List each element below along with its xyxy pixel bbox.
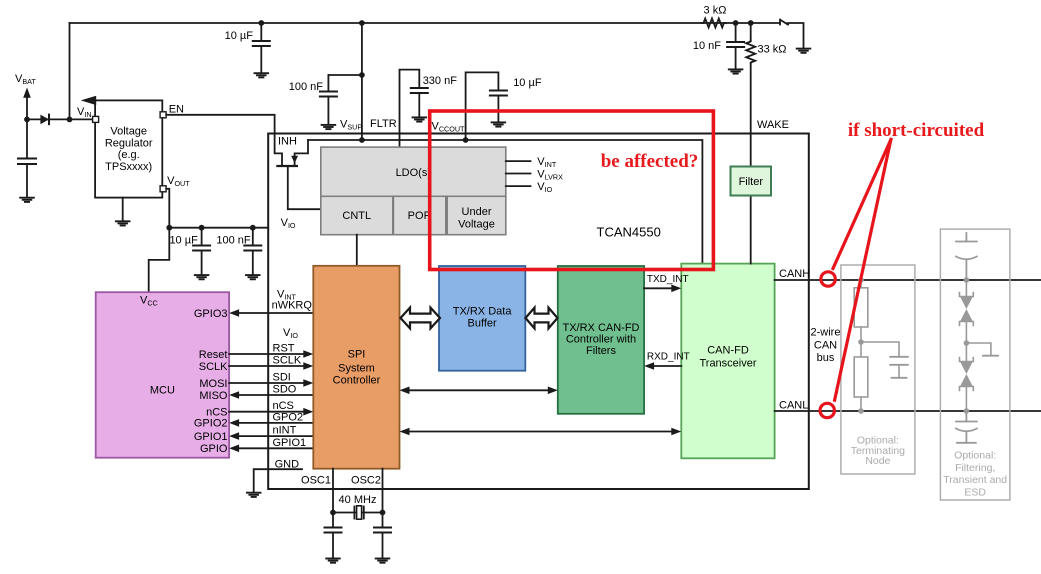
capacitor C11 ESD top [956, 233, 977, 280]
svg-text:TX/RX CAN-FD: TX/RX CAN-FD [563, 322, 640, 334]
svg-text:SDI: SDI [273, 372, 291, 384]
capacitor C12 ESD bottom [956, 411, 977, 443]
node rail VCCOUT junction [463, 137, 469, 143]
svg-text:LDO(s): LDO(s) [396, 167, 431, 179]
svg-text:Controller with: Controller with [566, 334, 636, 346]
svg-text:CAN: CAN [814, 340, 837, 352]
wire GND pin [254, 469, 302, 492]
svg-text:Filter: Filter [739, 176, 764, 188]
ground [729, 69, 743, 73]
wire SPI-Transceiver double arrow [408, 431, 674, 433]
wire SPI-Controller double arrow [408, 389, 550, 391]
capacitor VBAT bulk cap [26, 119, 28, 158]
resistor R4 terminating lower [854, 357, 868, 397]
svg-text:CAN-FD: CAN-FD [707, 345, 749, 357]
capacitor C2 100nF VSUP [320, 75, 362, 124]
svg-text:MOSI: MOSI [199, 378, 227, 390]
wire TXD_INT [644, 287, 673, 289]
svg-text:System: System [338, 363, 375, 375]
svg-text:Transient and: Transient and [943, 474, 1007, 486]
crystal X1 40MHz [333, 512, 383, 514]
pin VOUT [160, 186, 166, 192]
wire nWKRQ to GPIO3 [229, 313, 313, 448]
resistor R3 terminating upper [854, 288, 868, 327]
pin labels TCAN side [272, 289, 313, 471]
node rail VSUP junction [359, 137, 365, 143]
TCAN4550 outer box [268, 134, 809, 490]
wire vertical from top rail to VIN node [69, 23, 71, 119]
voltage regulator U1 [81, 96, 162, 198]
svg-text:Controller: Controller [333, 375, 381, 387]
svg-text:10 µF: 10 µF [169, 235, 198, 247]
pin EN [160, 112, 166, 118]
svg-text:OSC1: OSC1 [301, 475, 331, 487]
svg-text:2-wire: 2-wire [811, 327, 841, 339]
wire top supply rail [70, 22, 781, 24]
svg-text:SPI: SPI [348, 349, 366, 361]
svg-text:10 µF: 10 µF [513, 77, 542, 89]
node 10nF junction [733, 20, 739, 26]
wire ESD mid stub [966, 343, 998, 356]
TVS D2 upper [960, 280, 974, 343]
svg-text:40 MHz: 40 MHz [339, 494, 377, 506]
wire VCCOUT vertical with hook [466, 72, 499, 140]
pin VIO LDO output [506, 185, 531, 187]
resistor R2 33k vertical [746, 23, 755, 167]
capacitor C1 10uF top [253, 23, 270, 72]
svg-text:MISO: MISO [199, 390, 228, 402]
ground [797, 49, 811, 53]
wire VIO transistor source to CNTL [288, 166, 321, 209]
svg-text:be affected?: be affected? [601, 151, 699, 172]
wire VOUT to MCU VCC [149, 228, 170, 293]
svg-text:(e.g.: (e.g. [118, 149, 140, 161]
capacitor C8 osc left [325, 513, 342, 558]
svg-text:SCLK: SCLK [199, 361, 228, 373]
wire EN to INH transistor gate [166, 115, 282, 165]
TVS D3 lower [960, 343, 974, 411]
svg-text:ESD: ESD [964, 487, 986, 499]
ground [326, 559, 340, 563]
ground [376, 559, 390, 563]
optional filtering ESD box [940, 229, 1010, 500]
svg-text:330 nF: 330 nF [423, 75, 458, 87]
capacitor C3 330nF FLTR [411, 88, 428, 117]
wire CNTL to SPI [356, 235, 358, 266]
block POR [393, 196, 445, 234]
wire VSUP vertical [361, 23, 363, 140]
svg-text:GPIO2: GPIO2 [194, 418, 228, 430]
SPI System Controller block [313, 266, 399, 469]
pin labels MCU side [194, 308, 228, 455]
svg-text:Node: Node [865, 455, 890, 467]
wire VBAT branch [26, 98, 28, 120]
net VBAT arrow [15, 73, 36, 98]
svg-text:Filtering,: Filtering, [955, 462, 995, 474]
node VSUP 100nF junction [359, 72, 365, 78]
node VOUT junction [166, 225, 172, 231]
diode D1 reverse-battery [40, 115, 49, 125]
ground [322, 125, 336, 129]
svg-text:nWKRQ: nWKRQ [272, 300, 313, 312]
capacitor C5 10nF WAKE [727, 23, 744, 69]
wire VIN node to regulator [27, 118, 93, 120]
transistor Q1 INH high-side [277, 140, 308, 166]
pin VIN [93, 116, 99, 122]
pin VLVRX LDO output [506, 173, 531, 175]
svg-text:33 kΩ: 33 kΩ [758, 44, 787, 56]
node top rail 10uF junction [258, 20, 264, 26]
svg-text:SDO: SDO [273, 384, 297, 396]
svg-text:10 nF: 10 nF [693, 40, 721, 52]
svg-text:INH: INH [278, 136, 297, 148]
svg-text:Voltage: Voltage [458, 219, 495, 231]
optional terminating node box [841, 265, 915, 474]
svg-text:GPIO: GPIO [200, 443, 228, 455]
TX/RX Data Buffer block [439, 266, 525, 371]
wire internal VSUP rail [308, 140, 702, 264]
block LDO(s) [321, 147, 506, 196]
TX/RX CAN-FD Controller block [558, 266, 644, 414]
node VBAT junction [24, 117, 30, 123]
svg-text:Under: Under [462, 206, 492, 218]
svg-text:FLTR: FLTR [370, 118, 397, 130]
arrowheads into SPI [303, 350, 313, 415]
svg-text:TPSxxxx): TPSxxxx) [105, 161, 152, 173]
svg-text:TCAN4550: TCAN4550 [597, 225, 661, 240]
svg-text:GPIO3: GPIO3 [194, 308, 228, 320]
resistor R1 3k [702, 19, 726, 28]
capacitor C6 10uF VOUT [193, 228, 210, 275]
svg-text:TXD_INT: TXD_INT [647, 274, 689, 285]
capacitor C7 100nF VOUT [244, 228, 261, 275]
svg-text:Transceiver: Transceiver [699, 358, 756, 370]
svg-text:TX/RX Data: TX/RX Data [453, 306, 513, 318]
ground [492, 122, 506, 126]
ground [254, 73, 268, 77]
svg-text:100 nF: 100 nF [216, 235, 251, 247]
svg-text:WAKE: WAKE [757, 119, 789, 131]
block Under Voltage [447, 196, 506, 234]
block CNTL [321, 196, 393, 234]
svg-text:Optional:: Optional: [954, 450, 996, 462]
svg-text:MCU: MCU [150, 385, 175, 397]
svg-text:Reset: Reset [199, 349, 228, 361]
wire FLTR vertical with 330nF hook [400, 70, 420, 148]
svg-text:CANL: CANL [779, 400, 808, 412]
node 33k junction [748, 20, 754, 26]
MCU block [96, 292, 229, 458]
arrowheads into MCU [229, 309, 239, 452]
hollow arrow SPI-Buffer [401, 308, 441, 329]
Filter block [750, 196, 752, 264]
capacitor C4 10uF VCCOUT [490, 91, 507, 122]
capacitor C10 split termination [890, 357, 908, 378]
wire CANL bus [775, 410, 1041, 412]
ground regulator [122, 198, 124, 221]
svg-text:bus: bus [817, 352, 835, 364]
red circle CANL short [820, 403, 834, 417]
node ESD junctions [964, 277, 970, 283]
svg-text:100 nF: 100 nF [289, 81, 324, 93]
node top rail VSUP junction [359, 20, 365, 26]
svg-text:EN: EN [169, 104, 184, 116]
svg-text:GPO2: GPO2 [273, 411, 304, 423]
svg-text:Buffer: Buffer [468, 318, 497, 330]
hollow arrow Buffer-Controller [526, 308, 558, 329]
svg-text:3 kΩ: 3 kΩ [704, 5, 727, 17]
svg-text:Regulator: Regulator [105, 137, 153, 149]
svg-text:Filters: Filters [586, 345, 616, 357]
wire RXD_INT [652, 365, 681, 367]
wire VOUT net [166, 189, 268, 228]
svg-text:GPIO1: GPIO1 [273, 437, 307, 449]
svg-text:OSC2: OSC2 [351, 475, 381, 487]
node terminating junctions [858, 277, 864, 283]
ground VBAT cap [20, 198, 34, 202]
red highlight box [430, 111, 714, 270]
svg-text:nINT: nINT [273, 425, 297, 437]
ground GND pin [247, 493, 261, 497]
svg-text:RST: RST [273, 343, 295, 355]
svg-text:10 µF: 10 µF [225, 30, 254, 42]
pin VINT LDO output [506, 160, 531, 162]
ground [413, 117, 427, 121]
wire OSC2 [382, 469, 384, 513]
switch S1 wake to ground [780, 20, 804, 48]
CAN-FD Transceiver block [681, 264, 774, 459]
wire CANH bus [775, 279, 1041, 281]
svg-text:nCS: nCS [206, 407, 227, 419]
capacitor C9 osc right [374, 513, 391, 558]
ground [195, 275, 209, 279]
svg-text:Voltage: Voltage [110, 126, 147, 138]
red pointer line CANH [833, 140, 891, 269]
svg-text:if short-circuited: if short-circuited [848, 120, 985, 141]
svg-text:RXD_INT: RXD_INT [647, 352, 690, 363]
svg-text:CNTL: CNTL [342, 210, 371, 222]
svg-text:GPIO1: GPIO1 [194, 431, 228, 443]
red circle CANH short [821, 272, 835, 286]
ground [116, 221, 130, 225]
svg-text:SCLK: SCLK [273, 355, 302, 367]
wire terminating vertical [861, 280, 899, 411]
ground [246, 275, 260, 279]
node VIN junction [67, 117, 73, 123]
red pointer line CANL [835, 140, 891, 401]
wire OSC1 [332, 469, 334, 513]
svg-text:CANH: CANH [779, 268, 810, 280]
svg-text:nCS: nCS [273, 400, 294, 412]
